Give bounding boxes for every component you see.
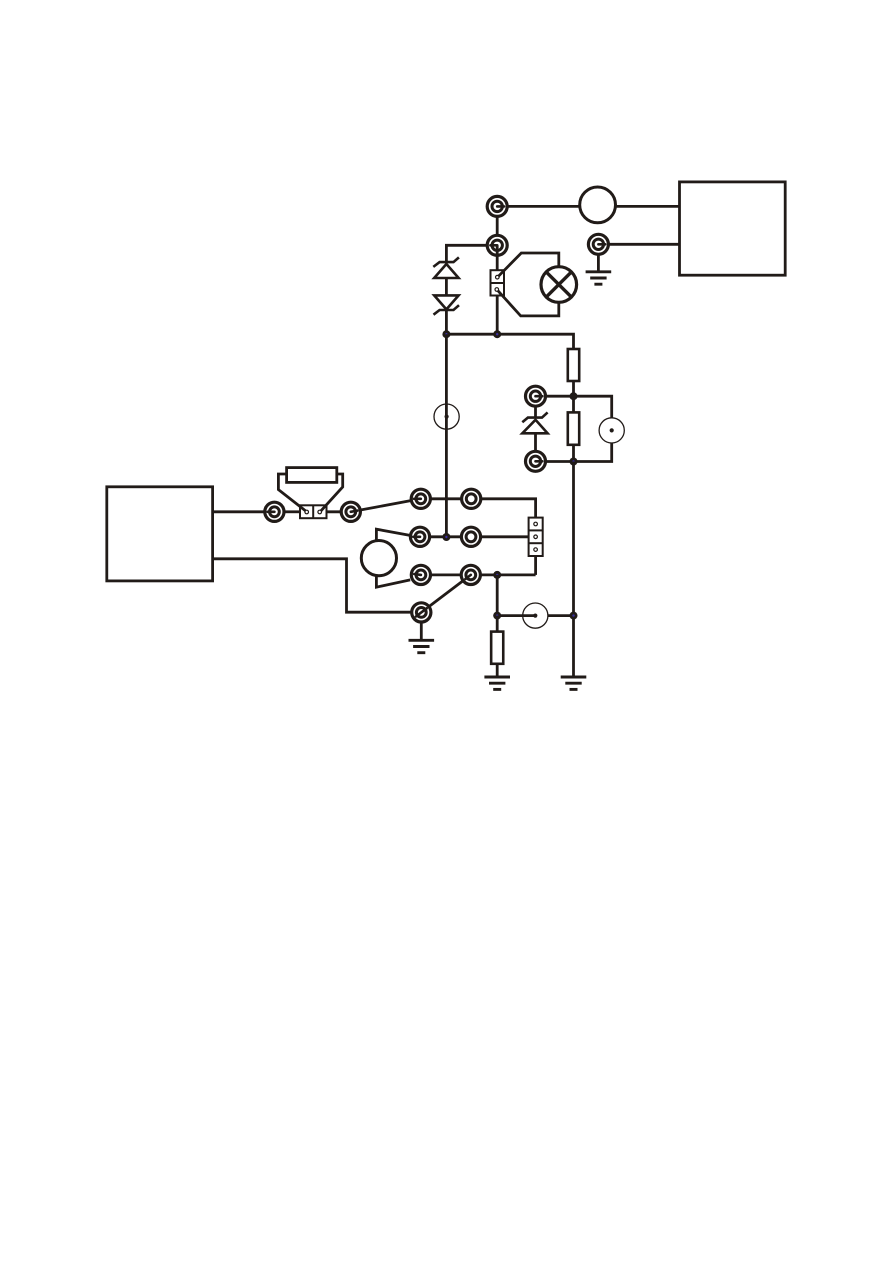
connector C5 (526, 451, 546, 471)
wire long center vertical (445, 334, 448, 537)
junction node D (570, 458, 578, 466)
wire F to junction G (496, 575, 499, 616)
connector C3 (588, 234, 608, 254)
wire C4 to zener D3 (534, 407, 537, 418)
wire horn connector to horn box (285, 510, 300, 513)
wire 3cell box to row3 (534, 556, 537, 575)
junction node E (442, 533, 450, 541)
wire connector1 to fuse circle (497, 205, 580, 208)
connector C4 (526, 386, 546, 406)
block: control unit box left (107, 487, 213, 581)
resistor R1 (568, 349, 579, 381)
wire row1 (421, 499, 536, 518)
wire corner to connector2 (446, 245, 486, 262)
horn shell right (321, 474, 343, 511)
wire row3 (421, 574, 536, 577)
wire R1 to R2 (572, 381, 575, 412)
horn body (287, 468, 337, 483)
wire relay box to junction (496, 296, 499, 335)
wire junction row (446, 334, 573, 349)
motor blade upper (376, 529, 410, 541)
wire R2 to junction D (572, 445, 575, 462)
motor blade lower (376, 575, 410, 587)
wire junction G to meter M3 (497, 614, 535, 617)
relay contact lower lead (498, 291, 559, 316)
wire C14 to ground (420, 623, 423, 641)
connector C11 row2 right (461, 527, 480, 546)
zener diode D3 (522, 412, 547, 433)
relay pin circles (495, 275, 499, 291)
wire R3 to ground (496, 664, 499, 677)
junction node A (442, 330, 450, 338)
junction node F (493, 571, 501, 579)
motor M2 circle (361, 541, 396, 576)
wire fuse circle to ECU box (616, 205, 680, 208)
horn terminal box (300, 505, 327, 518)
ground G3 (484, 677, 510, 689)
wire junction G to R3 (496, 616, 499, 632)
wire D2 to junction (445, 309, 448, 334)
block: ECU box top right (680, 182, 786, 275)
resistor R2 (568, 412, 579, 444)
junction node C (570, 392, 578, 400)
indicator lamp L1 (541, 267, 577, 303)
fuse F2 circle (434, 404, 459, 429)
wire connector3 to ECU box (598, 243, 679, 246)
wire D3 to C5 (534, 433, 537, 450)
wire connector2 to relay box (496, 245, 499, 270)
relay contact upper lead (499, 253, 559, 276)
junction node H (570, 612, 578, 620)
wire long right vertical (572, 462, 575, 676)
wire row2 (420, 535, 529, 538)
fuse F1 circle (580, 187, 616, 223)
ground G4 (561, 677, 587, 689)
horn terminal pin circles (305, 510, 322, 514)
relay coil box K1 (491, 270, 505, 295)
junction node G (493, 612, 501, 620)
wire box lower to bottom connector (213, 559, 422, 612)
meter M1 circle (599, 418, 624, 443)
zener diode D1 (433, 257, 459, 278)
connector C6 (265, 502, 284, 521)
connector C2 (487, 235, 507, 255)
switch blade S1 (351, 499, 421, 512)
ground G1 (586, 272, 612, 284)
wire between D1 and D2 (445, 278, 448, 295)
connector C14 bottom (412, 603, 431, 622)
wire box to horn connector (213, 510, 275, 513)
wire lower connector row (546, 460, 573, 463)
meter M3 circle (523, 603, 548, 628)
connector C1 (487, 196, 507, 216)
wire horn box to connector C7 (327, 510, 351, 513)
wire mid connector row (546, 396, 611, 418)
horn shell left (278, 474, 305, 511)
connector C7 (341, 502, 360, 521)
3-cell connector block (529, 518, 543, 556)
zener diode D2 (434, 295, 460, 314)
ground G2 (409, 640, 435, 652)
connector C10 row2 left (410, 527, 429, 546)
switch blade S2 diagonal (421, 575, 471, 613)
wire M3 to junction H (548, 614, 574, 617)
connector C12 row3 left (411, 565, 430, 584)
wire between connector1 and connector2 (496, 206, 499, 245)
connector C13 row3 right (461, 565, 480, 584)
junction node B (493, 330, 501, 338)
resistor R3 (491, 632, 503, 664)
connector C9 row1 right (462, 489, 481, 508)
wire meter to corner (574, 443, 612, 462)
connector C8 row1 left (411, 489, 430, 508)
wire connector3 to ground (597, 244, 600, 271)
